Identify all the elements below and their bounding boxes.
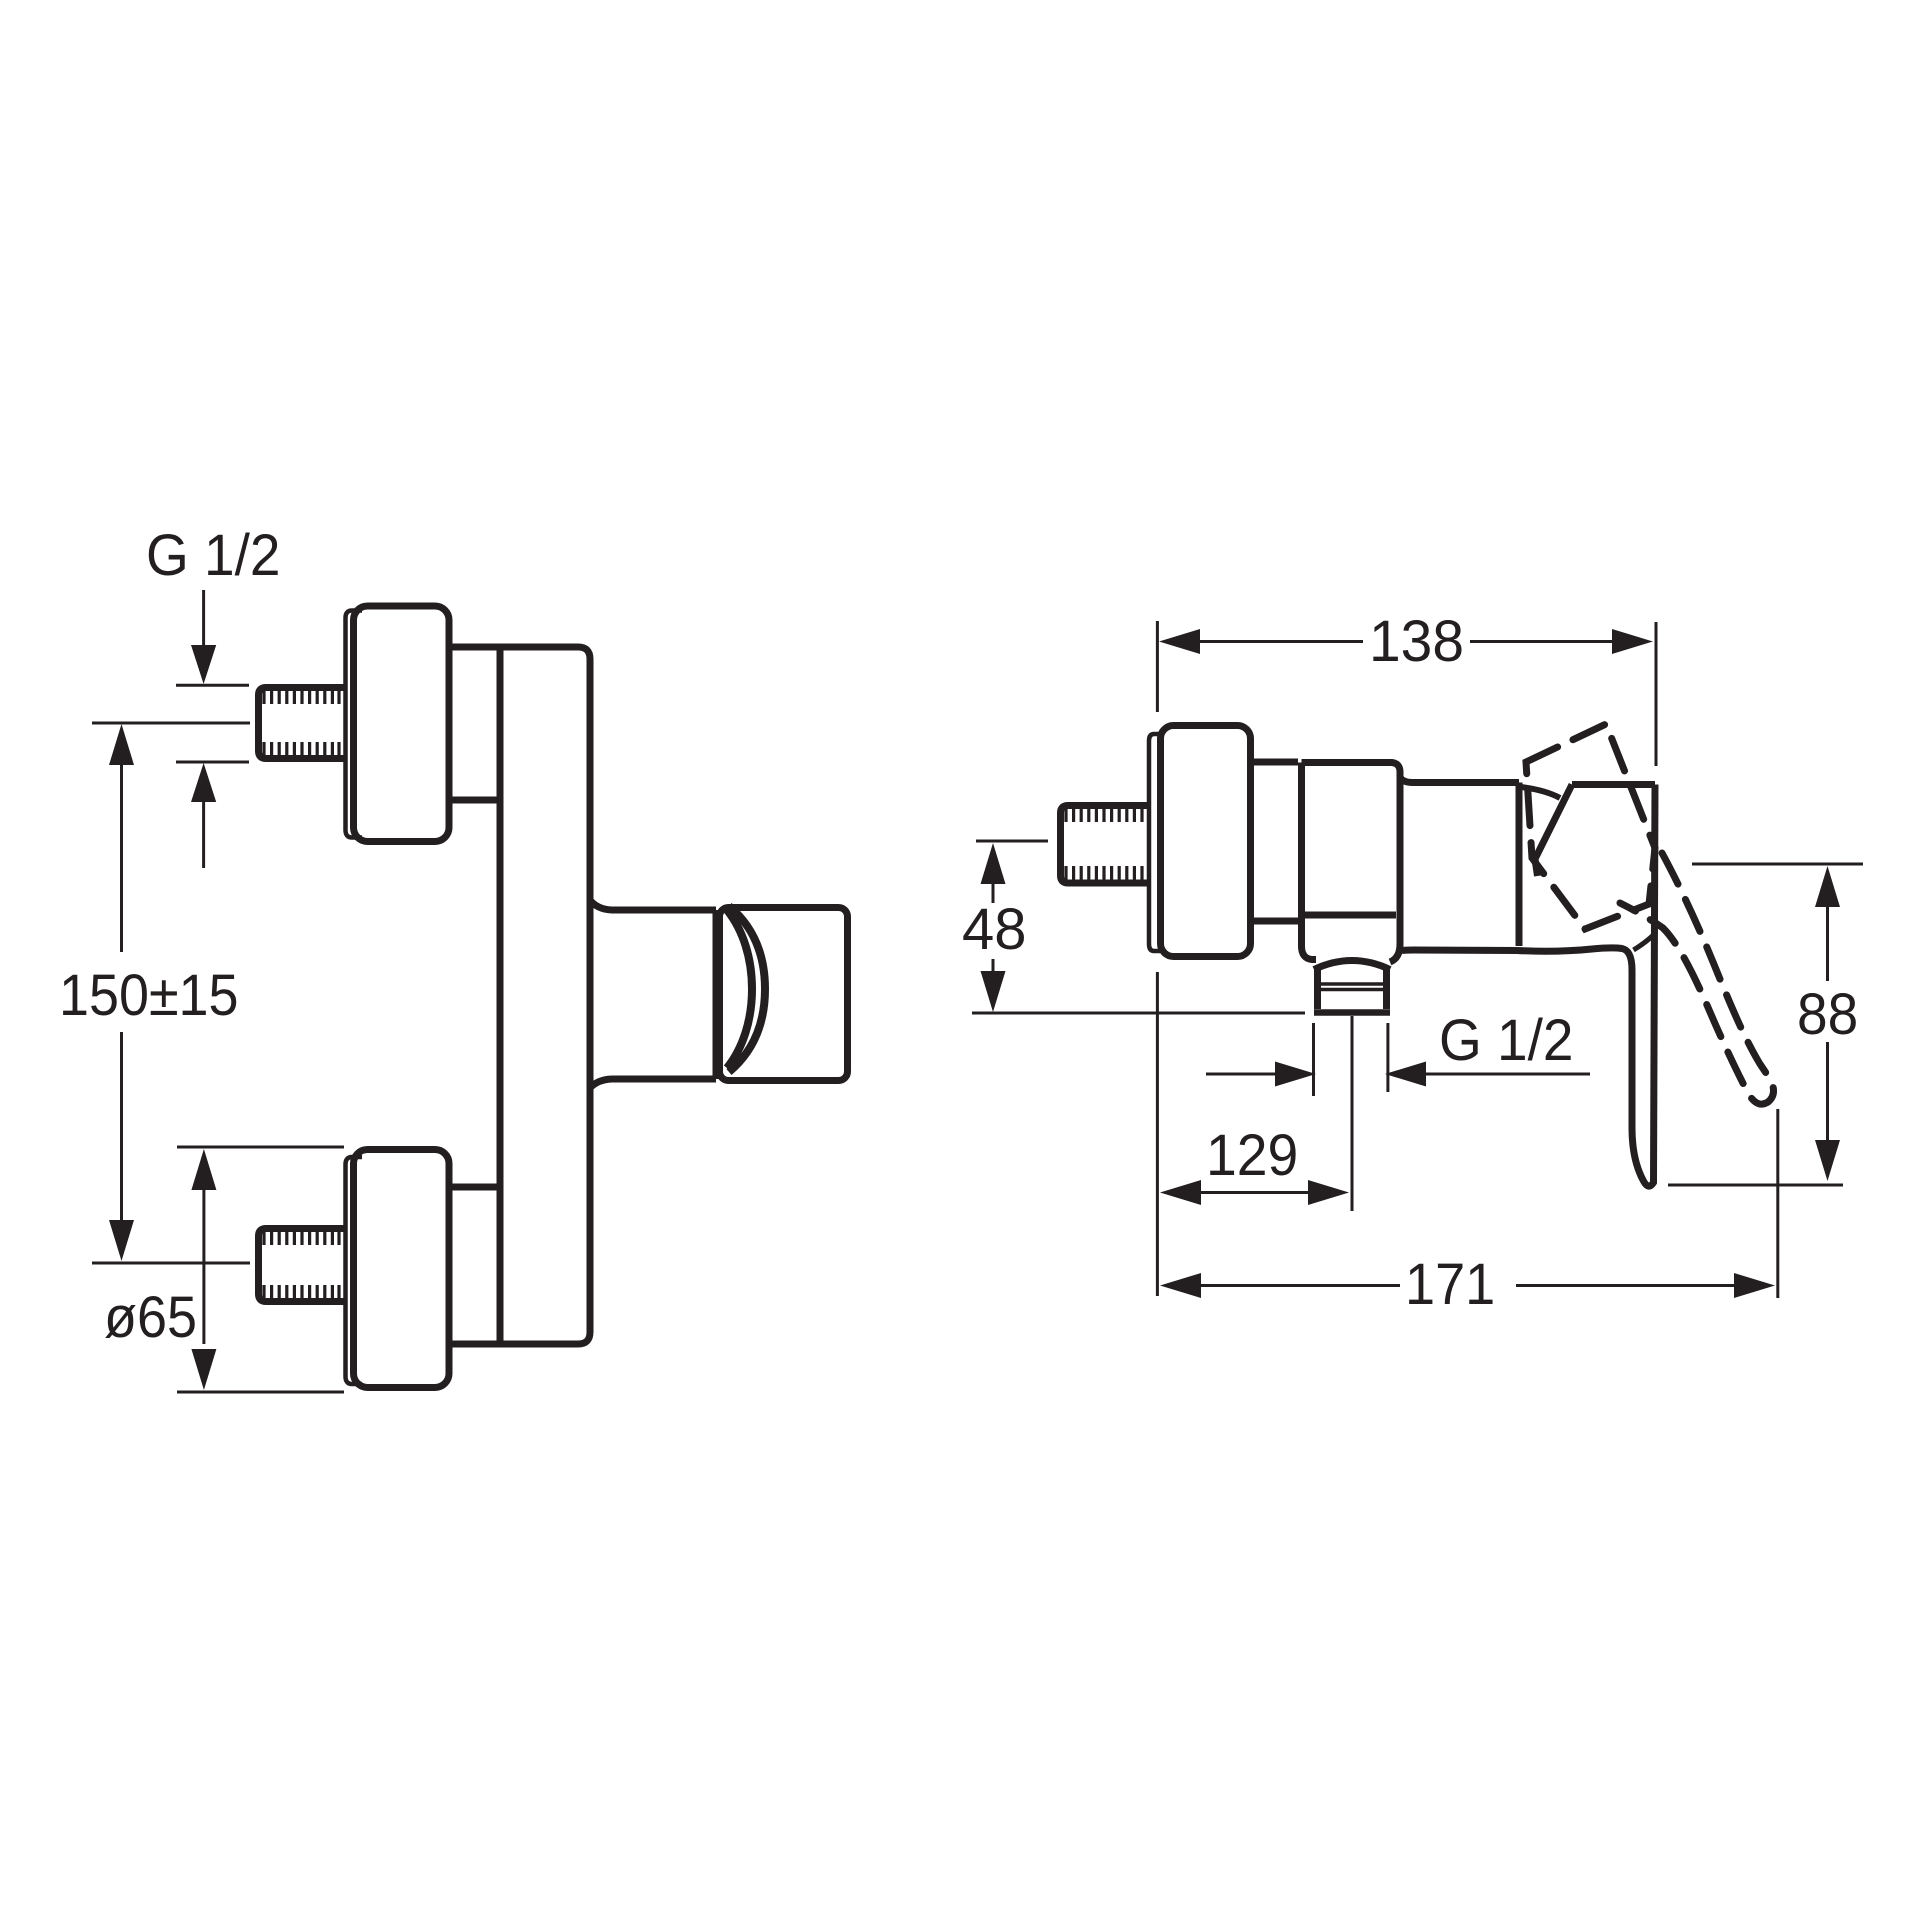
arrowhead G 1/2 outlet left-pointing <box>1385 1062 1426 1087</box>
dia65 extension line rosette bottom <box>177 1391 344 1394</box>
G 1/2 outlet left extension line <box>1312 1023 1315 1096</box>
arrowhead dia65 up <box>191 1149 216 1190</box>
side view thread ticks lower row <box>1066 866 1142 880</box>
side view inlet thread pipe <box>1061 806 1151 884</box>
outlet spout bottom face <box>1314 1009 1390 1016</box>
arrowhead 171 left <box>1160 1273 1201 1298</box>
extension line wall plane <box>1156 621 1159 1296</box>
48 extension line pipe center <box>976 840 1048 843</box>
side view cap top edge <box>1400 777 1519 783</box>
front view top inlet collar bottom edge <box>452 797 500 804</box>
G 1/2 outlet right extension line <box>1386 1023 1389 1092</box>
arrowhead 150 down <box>109 1220 134 1261</box>
dia65 dimension line <box>202 1188 205 1344</box>
150 extension line top pipe center <box>92 722 250 725</box>
arrowhead 129 right <box>1308 1180 1349 1205</box>
svg-text:138: 138 <box>1369 609 1464 674</box>
svg-text:G 1/2: G 1/2 <box>146 523 281 588</box>
side view thread ticks upper row <box>1066 808 1142 822</box>
171 right extension line lever tip <box>1776 1109 1779 1298</box>
svg-text:48: 48 <box>962 897 1027 962</box>
171 dimension line <box>1199 1284 1737 1287</box>
150 dimension line <box>120 764 123 1223</box>
arrowhead 88 down <box>1815 1140 1840 1181</box>
front view knob face outer arc <box>729 906 765 1072</box>
front view knob face inner arc <box>727 910 752 1068</box>
outlet spout band lines <box>1318 984 1387 990</box>
front view bottom rosette backplate <box>346 1157 363 1384</box>
side view lever root fillet <box>1634 935 1654 950</box>
88 dimension line upper tail <box>1826 906 1829 981</box>
side view valve body top and rear divider <box>1302 763 1401 963</box>
svg-text:129: 129 <box>1206 1123 1298 1188</box>
side view valve mid-section bottom line <box>1305 912 1396 919</box>
svg-text:150±15: 150±15 <box>59 963 239 1028</box>
side view handle base left edge <box>1535 785 1572 877</box>
side view rosette <box>1161 726 1251 957</box>
front view bottom inlet collar top edge <box>452 1184 500 1191</box>
front view top thread ticks lower row <box>264 742 339 756</box>
arrowhead G 1/2 down <box>191 645 216 684</box>
arrowhead 48 up <box>981 843 1006 884</box>
outlet spout centerline <box>1351 1016 1354 1211</box>
front view top thread ticks upper row <box>264 690 339 704</box>
arrowhead 138 left <box>1159 629 1200 654</box>
front view handle neck <box>589 899 716 1089</box>
dia65 extension line rosette top <box>177 1146 344 1149</box>
svg-text:88: 88 <box>1797 982 1858 1047</box>
front view handle knob <box>720 908 848 1081</box>
outlet spout top arc <box>1314 961 1390 970</box>
svg-text:G 1/2: G 1/2 <box>1439 1008 1574 1073</box>
88 extension line bottom <box>1668 1184 1843 1187</box>
front view mixer body outline <box>452 647 590 1344</box>
arrowhead 88 up <box>1815 866 1840 907</box>
front view body left edge <box>497 647 504 1344</box>
front view top rosette backplate <box>346 611 363 838</box>
side view shoulder arc <box>1521 787 1560 798</box>
side view handle base top edge <box>1572 781 1655 788</box>
side view valve bottom corner left of outlet <box>1302 946 1317 960</box>
front view bottom rosette <box>354 1150 450 1388</box>
arrowhead 150 up <box>109 724 134 765</box>
arrowhead G 1/2 outlet right-pointing <box>1275 1062 1316 1087</box>
outlet spout side walls <box>1318 967 1387 1009</box>
front view top inlet thread pipe <box>259 688 346 759</box>
48 extension line outlet bottom <box>972 1012 1305 1015</box>
arrowhead G 1/2 up <box>191 763 216 802</box>
G 1/2 leader line bottom <box>202 802 205 868</box>
side view cap right edge <box>1516 783 1523 947</box>
front view bottom thread ticks upper row <box>264 1231 339 1245</box>
svg-text:171: 171 <box>1405 1252 1495 1317</box>
G 1/2 extension line at thread bottom <box>176 761 249 764</box>
G 1/2 dimension line right segment <box>1424 1073 1590 1076</box>
G 1/2 extension line at thread top <box>176 684 249 687</box>
arrowhead 129 left <box>1160 1180 1201 1205</box>
150 extension line bottom pipe center <box>92 1262 250 1265</box>
88 extension line top <box>1692 863 1863 866</box>
dashed handle base raised position <box>1526 724 1655 929</box>
48 dimension line upper tail <box>992 880 995 903</box>
88 dimension line lower tail <box>1826 1042 1829 1141</box>
G 1/2 dimension line left segment <box>1206 1073 1278 1076</box>
front view bottom inlet thread pipe <box>259 1229 346 1302</box>
129 dimension line <box>1199 1191 1310 1194</box>
side view bottom edge and solid lever outline <box>1402 785 1655 1187</box>
front view top rosette <box>354 606 450 842</box>
arrowhead 171 right <box>1734 1273 1775 1298</box>
G 1/2 leader line top <box>202 590 205 646</box>
138 right extension line <box>1655 622 1658 766</box>
dashed lever raised position <box>1620 853 1774 1104</box>
arrowhead dia65 down <box>191 1349 216 1390</box>
svg-text:ø65: ø65 <box>104 1285 197 1350</box>
arrowhead 48 down <box>981 971 1006 1012</box>
side view rosette backplate <box>1149 734 1160 951</box>
138 dimension line <box>1198 640 1616 643</box>
side view valve body divider <box>1298 763 1305 949</box>
arrowhead 138 right <box>1612 629 1653 654</box>
front view bottom thread ticks lower row <box>264 1285 339 1299</box>
48 dimension line lower tail <box>992 959 995 974</box>
side view neck section lines <box>1251 762 1299 921</box>
